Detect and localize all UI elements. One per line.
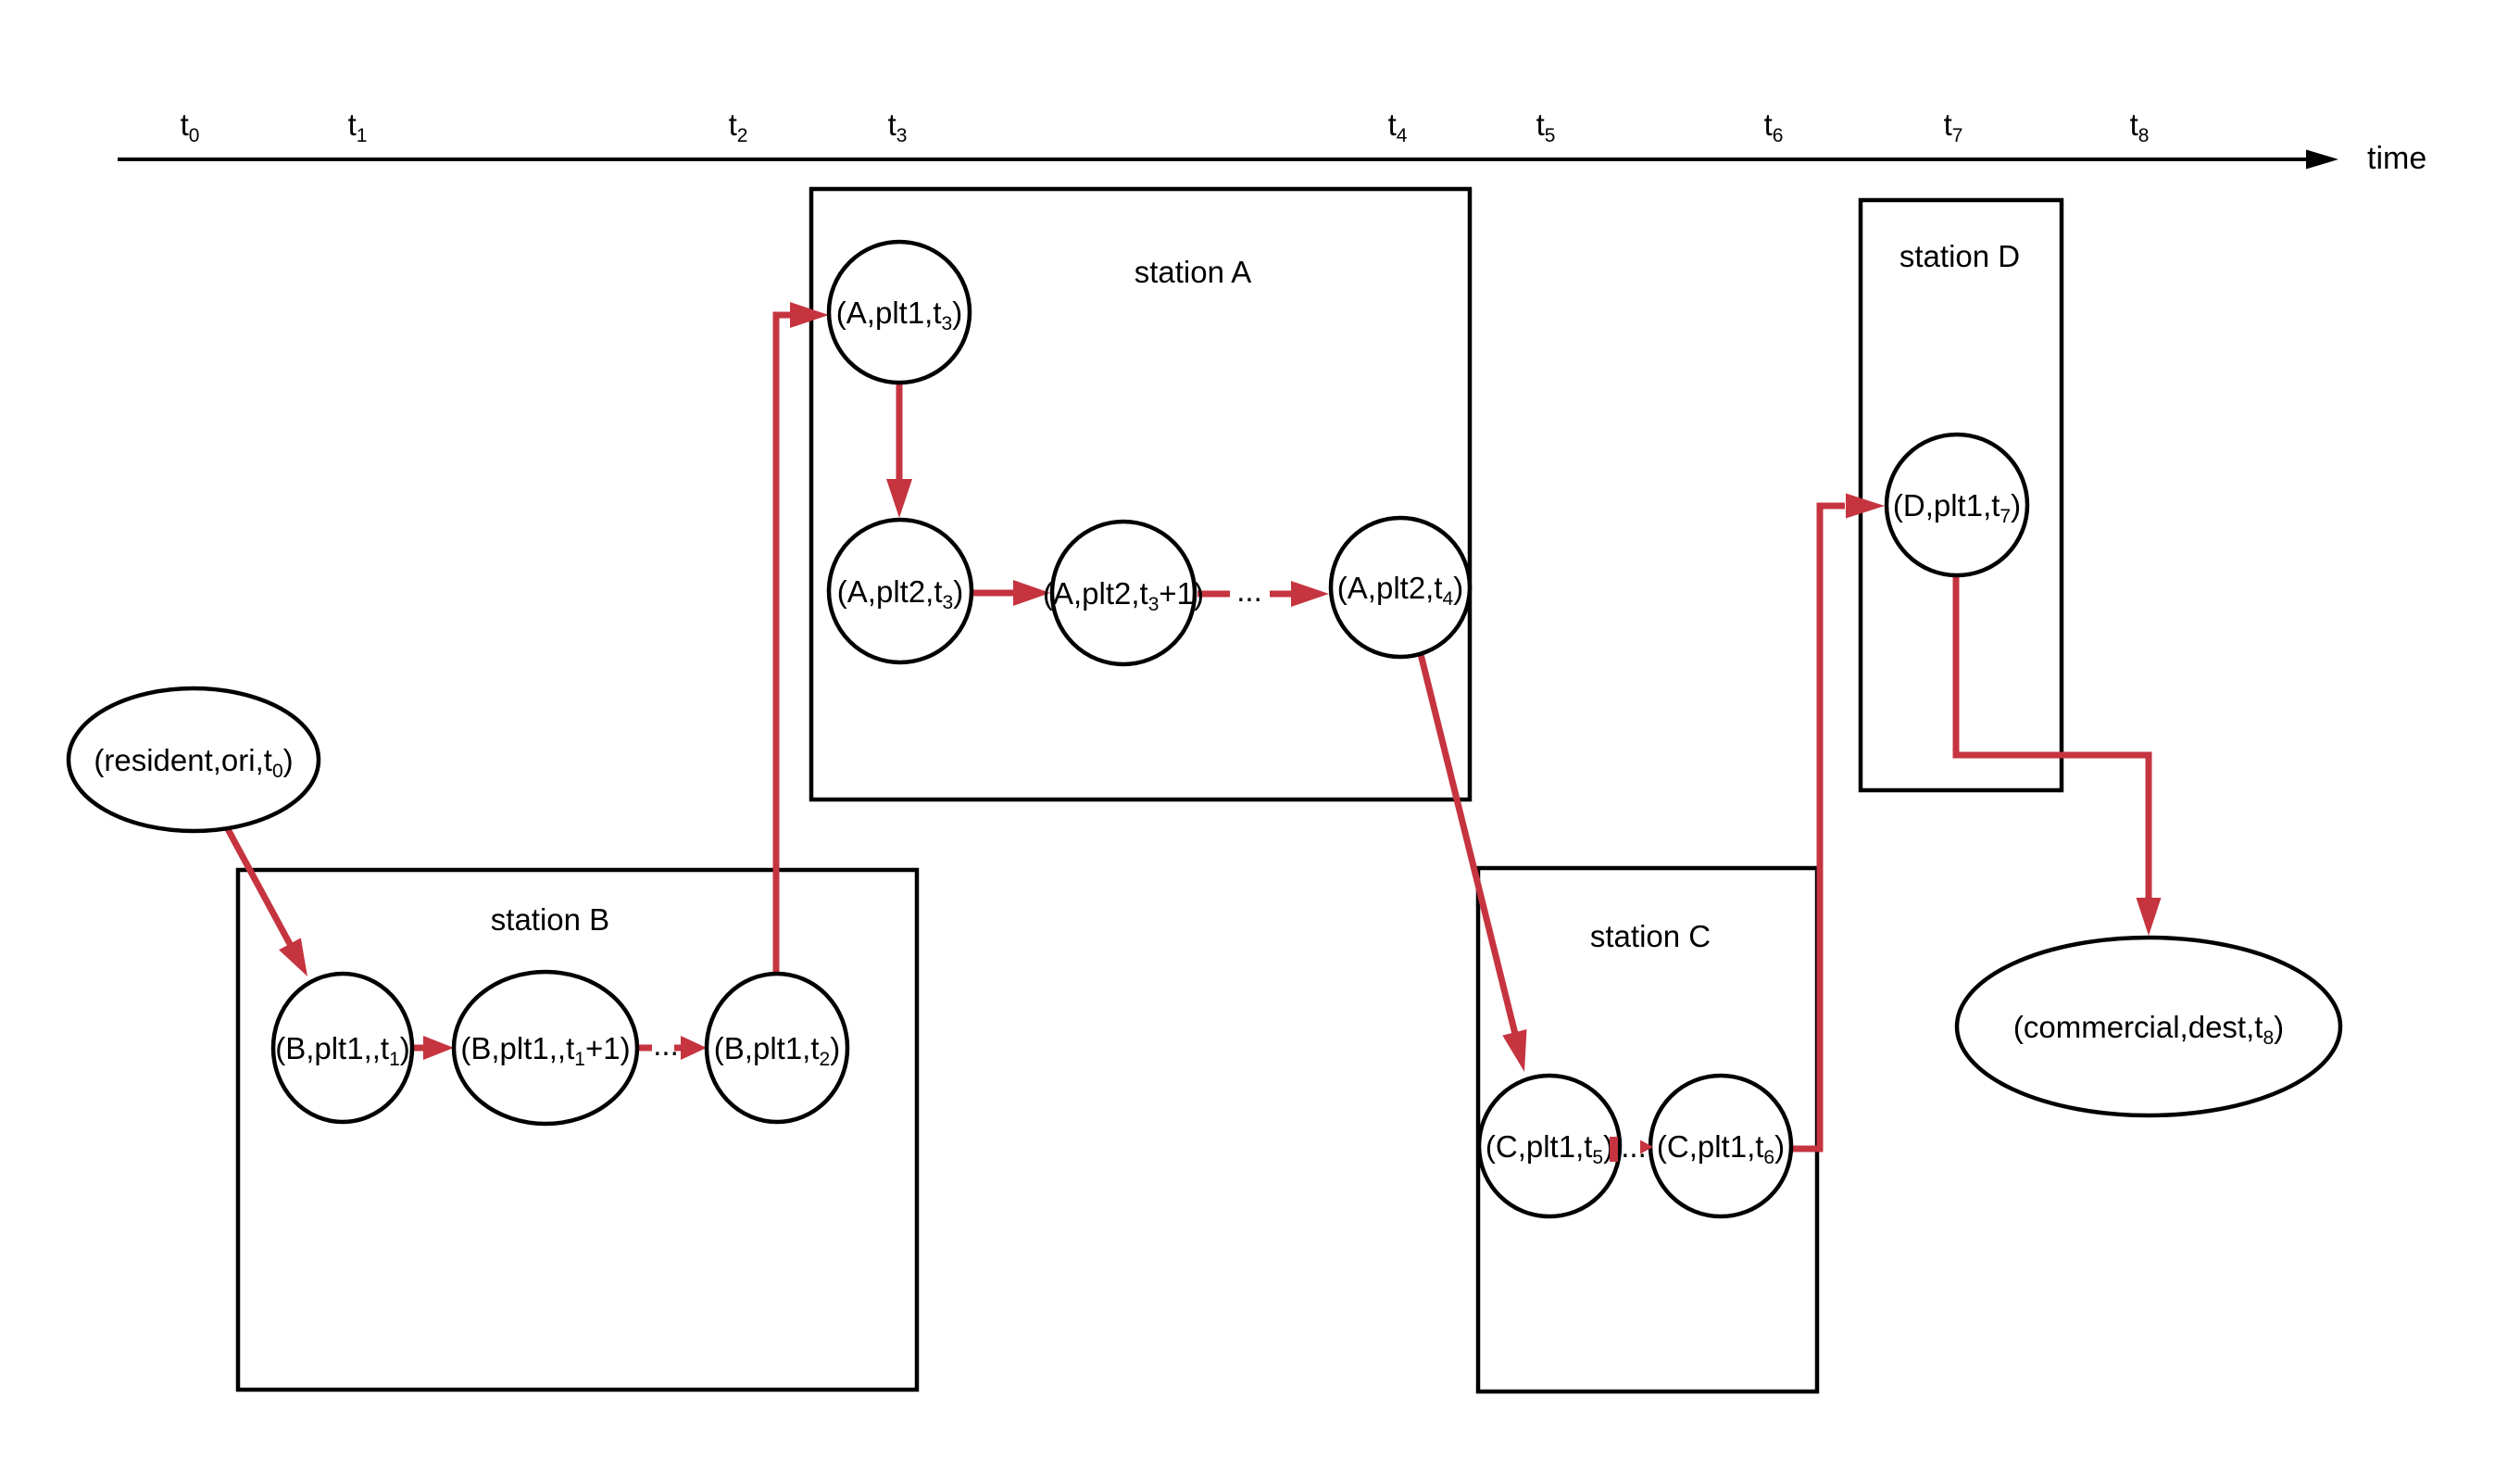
svg-text:(commercial,dest,t8): (commercial,dest,t8) <box>2013 1010 2284 1049</box>
svg-text:station B: station B <box>491 902 609 937</box>
svg-text:(A,plt2,t3+1): (A,plt2,t3+1) <box>1043 576 1204 615</box>
svg-text:(resident,ori,t0): (resident,ori,t0) <box>94 743 293 782</box>
svg-text:station C: station C <box>1590 919 1711 953</box>
svg-text:(B,plt1,,t1+1): (B,plt1,,t1+1) <box>460 1031 630 1070</box>
svg-text:...: ... <box>1236 573 1262 608</box>
svg-text:station A: station A <box>1135 255 1252 289</box>
svg-text:station D: station D <box>1899 239 2020 273</box>
svg-text:time: time <box>2367 141 2426 176</box>
